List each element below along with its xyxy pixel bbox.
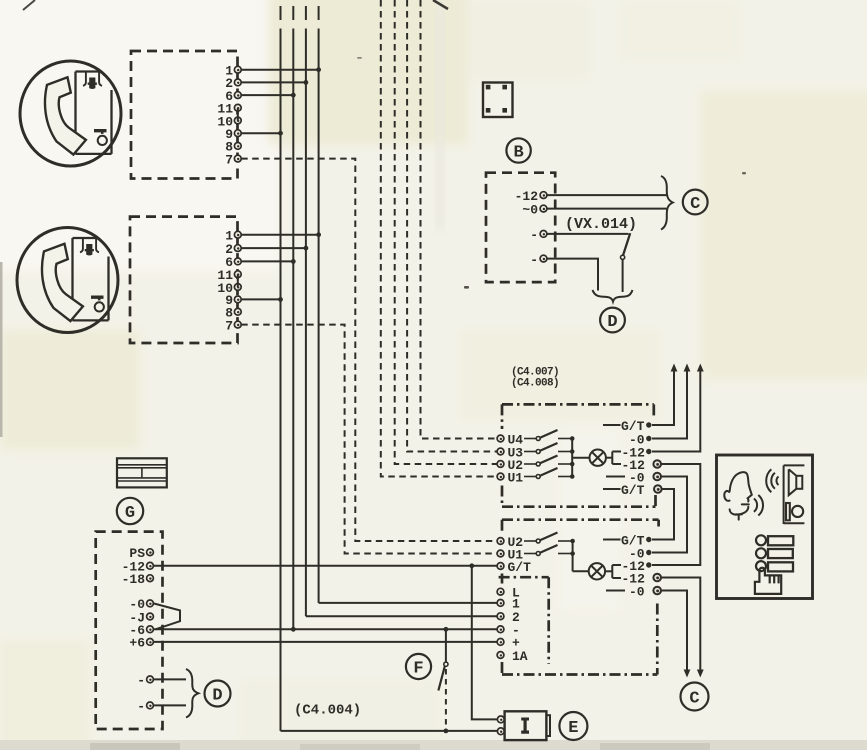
wire column W6 (pin6 riser, solid): [292, 6, 294, 629]
sub-box K2a (dash-dot around L 1 2 - + 1A): [499, 577, 549, 664]
brace to C (right curly brace): [661, 176, 673, 230]
box B (dashed, power unit): [486, 173, 555, 282]
A2 terminals: [234, 231, 241, 328]
switch VX.014 blade: [621, 233, 631, 292]
svg-text:-18: -18: [122, 572, 146, 587]
wire A2 pin2 to W2: [241, 246, 308, 251]
svg-text:1A: 1A: [512, 649, 528, 664]
switch S2-U2: [524, 533, 575, 544]
svg-text:U1: U1: [508, 470, 524, 485]
A1 pin labels 1 2 6 11 10 9 8 7: [217, 64, 233, 168]
node label circle C (bottom): [681, 683, 709, 711]
box K1 (dash-dot, relay group C4.007/008): [502, 404, 656, 506]
fuse/terminal strip symbol above G: [117, 458, 167, 487]
node label circle B: [506, 138, 530, 162]
switch S-U1: [524, 468, 575, 479]
name plate 1: [768, 536, 793, 545]
scan artifact left edge: [0, 262, 3, 437]
switch S-U2: [524, 456, 575, 467]
wire K1 -0 terminal down to K2 -0 row: [652, 477, 687, 553]
svg-text:G/T: G/T: [508, 560, 532, 575]
K1 left terminals U4 U3 U2 U1: [497, 435, 504, 480]
lamp H2 (buzzer/lamp in K2): [573, 563, 621, 579]
K1 right row -0 (top): [629, 432, 652, 447]
wire minus run (box G -6 to K2a minus): [154, 627, 497, 632]
switch S-U3: [524, 443, 575, 454]
wire W2 to terminal 2 of K2 sub-box: [306, 615, 497, 617]
node label circle C: [683, 190, 708, 215]
wire A1 pin9 to W9: [241, 131, 283, 136]
wire column W1 (pin1 riser, solid): [318, 6, 320, 603]
wire A1 pin7 dashed to U2 of K2: [241, 159, 496, 541]
svg-text:-: -: [137, 673, 145, 688]
wire column WU3 (dashed riser to U3 of K1): [407, 0, 497, 452]
wire B -12 to brace C: [547, 194, 667, 196]
box K2 (dash-dot, relay group lower): [502, 520, 659, 675]
K1 right row -0 (terminal): [606, 470, 661, 485]
node label circle G: [117, 498, 143, 524]
A1 terminals: [234, 66, 241, 162]
pressing hand icon: [755, 568, 781, 594]
wire G/T junction down to connector E upper pin: [472, 566, 497, 720]
wire A1 pin6 to W6: [241, 93, 295, 98]
switch S2-U1: [524, 545, 575, 556]
call button 1: [756, 535, 766, 545]
node label circle D (upper): [600, 308, 625, 333]
wire B ~0 to brace C: [547, 208, 667, 210]
wire/arrow column 0-up (x687): [652, 370, 687, 439]
box G terminals: [147, 549, 154, 709]
svg-text:(VX.014): (VX.014): [565, 216, 637, 233]
svg-text:~0: ~0: [522, 202, 538, 217]
K2 right row -0 (terminal): [606, 584, 661, 599]
K1 right row G/T (top): [603, 419, 652, 434]
lamp H1 (buzzer/lamp in K1): [572, 450, 621, 466]
jumper link -0 to -6 in box G: [154, 603, 181, 629]
svg-text:(C4.004): (C4.004): [294, 703, 361, 719]
wire K1 -12 terminal down to K2 -12 row: [652, 464, 700, 565]
call button 3: [756, 561, 766, 571]
K1 right row -12 (top): [622, 445, 652, 460]
call button 2: [756, 548, 766, 558]
wire A1 pin1 to W1: [241, 67, 321, 72]
A2 pin labels 1 2 6 11 10 9 8 7: [217, 229, 233, 334]
wire column WU2 (dashed riser to U2 of K1): [395, 0, 497, 464]
wire A1 pin2 to W2: [241, 80, 308, 85]
name plate 2: [768, 549, 793, 558]
K1 right row -12 (terminal): [622, 458, 662, 473]
K2 right row -0: [629, 546, 652, 561]
svg-text:D: D: [607, 313, 617, 332]
wire column WU4 (dashed riser to U4 of K1): [421, 0, 497, 439]
K2 left terminals U2 U1: [497, 538, 504, 557]
wire W1 to terminal 1 of K2 sub-box: [319, 602, 497, 604]
svg-text:E: E: [568, 719, 578, 738]
wire common bar K1: [571, 439, 573, 477]
node label circle F: [406, 654, 431, 679]
wire B third terminal to switch VX.014: [547, 233, 629, 235]
wire/arrow column 12-up (x700): [652, 370, 700, 452]
svg-text:D: D: [212, 686, 222, 705]
wire plus run (box G +6 to K2a plus): [154, 641, 497, 643]
scan artifact diagonal top-left: [23, 0, 35, 10]
svg-text:+6: +6: [129, 636, 145, 651]
switch S-U4: [524, 430, 575, 441]
wire G/T main run (box G -12 to K2 G/T): [154, 563, 497, 568]
wire bottom run W9 to connector E: [281, 729, 498, 734]
wire B fourth terminal down to brace D: [547, 259, 598, 291]
sound waves (speaker side): [766, 469, 778, 492]
K2a terminals L 1 2 - + 1A: [497, 588, 504, 658]
box G (dashed, exchange power box): [96, 532, 163, 729]
speech waves (mouth): [754, 495, 763, 516]
svg-text:G: G: [125, 504, 135, 523]
wire G minus terminals to brace D: [154, 678, 187, 680]
svg-text:F: F: [413, 659, 423, 678]
svg-text:C: C: [690, 195, 700, 214]
node label circle E: [559, 712, 587, 740]
wire column WU1 (dashed riser to U1 of K1): [381, 0, 497, 477]
node label circle D (lower): [205, 681, 231, 707]
face profile icon: [724, 472, 752, 519]
connection box A2 (dashed): [130, 217, 238, 343]
svg-text:-: -: [530, 228, 538, 243]
K1 right row G/T (terminal): [603, 483, 662, 498]
scan speck above phone1 box: [357, 57, 362, 59]
intercom door station panel: [717, 455, 813, 599]
connection box A1 (dashed): [131, 51, 238, 179]
wire A2 pin9 to W9: [241, 297, 283, 302]
wire/arrow K2 -12 terminal down to C: [661, 578, 701, 672]
wire/arrow column GT-up (x674): [652, 370, 674, 425]
svg-text:B: B: [513, 143, 523, 162]
wire K1 G/T terminal down to K2 G/T row: [652, 489, 674, 540]
K2 right row G/T: [603, 533, 652, 548]
brace to D (under-brace): [593, 290, 633, 302]
svg-text:-: -: [530, 252, 538, 267]
svg-text:7: 7: [225, 318, 233, 333]
switch F (blade and dashed drop): [438, 629, 448, 731]
name plate 3: [768, 562, 793, 571]
scan speck near box B: [464, 286, 469, 289]
svg-text:-0: -0: [629, 584, 645, 599]
svg-text:C: C: [689, 689, 699, 708]
jumper A2 pins 11-10: [237, 274, 239, 287]
svg-text:G/T: G/T: [621, 483, 645, 498]
svg-text:-: -: [137, 699, 145, 714]
K2 right row -12: [622, 559, 652, 574]
jumper A1 pins 11-10: [237, 108, 239, 121]
K2 right row -12 (terminal): [622, 571, 662, 586]
scan speck right middle: [742, 172, 746, 174]
loudspeaker icon: [784, 465, 805, 524]
connector E (plug symbol): [497, 711, 550, 740]
box G labels: [122, 546, 146, 714]
K2 left terminal G/T with label: [497, 560, 531, 575]
wire A2 pin1 to W1: [241, 232, 321, 237]
scan artifact diagonal top-middle: [433, 0, 448, 9]
wire column W2 (pin2 riser, solid): [305, 6, 307, 616]
box B labels: [515, 189, 539, 268]
wire common bar K2: [572, 541, 574, 571]
telephone set symbol A1 (upper handset station): [20, 61, 121, 166]
wire column W9 (pin9 riser, solid): [280, 6, 282, 731]
telephone set symbol A2 (lower handset station): [17, 228, 118, 333]
wire A2 pin6 to W6: [241, 259, 295, 264]
svg-text:(C4.008): (C4.008): [511, 378, 559, 390]
box B terminals: [540, 192, 547, 262]
connector symbol (4-pad plug) top right: [483, 83, 513, 118]
wire/arrow K2 -0 terminal down to C: [661, 591, 687, 672]
brace to D (lower, right curly brace): [186, 669, 198, 718]
wire A2 pin7 dashed to U1 of K2: [241, 325, 496, 554]
svg-text:7: 7: [225, 152, 233, 167]
earphone icon: [786, 503, 803, 520]
